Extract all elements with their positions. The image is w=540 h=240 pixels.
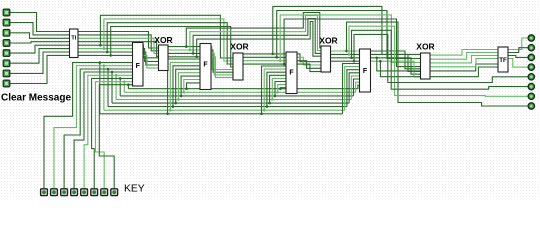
svg-text:Clear Message: Clear Message [1,93,71,104]
svg-text:XOR: XOR [319,36,337,46]
svg-text:TI: TI [71,36,77,42]
svg-text:XOR: XOR [230,42,248,52]
svg-text:F: F [203,62,208,69]
svg-text:XOR: XOR [154,35,172,45]
svg-text:XOR: XOR [416,42,434,52]
svg-text:F: F [289,70,294,77]
svg-text:KEY: KEY [124,184,145,195]
svg-text:TF: TF [499,57,507,64]
svg-text:F: F [136,63,141,70]
svg-text:F: F [363,68,368,75]
